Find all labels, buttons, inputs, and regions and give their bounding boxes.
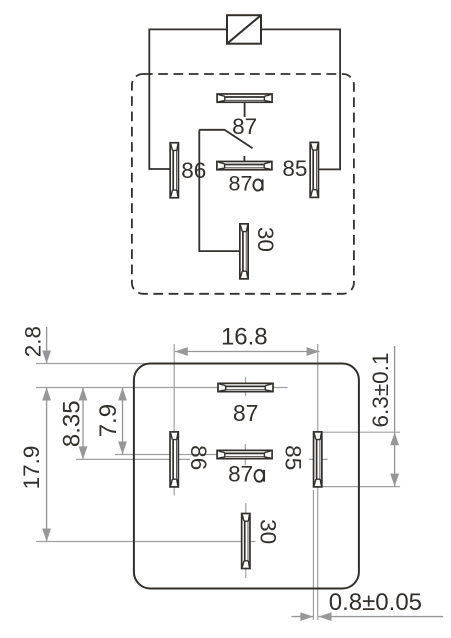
svg-text:16.8: 16.8 (221, 324, 268, 351)
svg-text:87: 87 (228, 462, 253, 487)
pin 30 blade (top schematic) (240, 224, 248, 279)
dimension 2.8 (21, 326, 51, 364)
dimension 16.8 (175, 324, 320, 356)
svg-text:30: 30 (253, 227, 278, 252)
svg-text:87: 87 (229, 172, 253, 196)
pin 87 blade (bottom drawing) (218, 383, 273, 391)
svg-text:87: 87 (233, 400, 259, 426)
dimension 0.8±0.05 (291, 589, 443, 621)
svg-text:7.9: 7.9 (95, 404, 122, 437)
center mark pin 30 (245, 503, 247, 578)
svg-text:17.9: 17.9 (19, 446, 44, 490)
label 87a (229, 172, 263, 196)
extension line 6.3 top (318, 431, 400, 433)
dashed relay outline (132, 74, 354, 294)
label 87a (bottom) (228, 462, 264, 487)
svg-text:86: 86 (186, 445, 211, 470)
pin 86 blade (bottom drawing) (170, 432, 178, 487)
extension line pin 86 vertical (173, 344, 175, 496)
wire coil left to pin 86 (149, 29, 227, 169)
relay body outline (134, 364, 359, 589)
pin 87a blade (bottom drawing) (217, 450, 272, 458)
pin 87a blade (top schematic) (217, 161, 272, 169)
svg-text:6.3±0.1: 6.3±0.1 (368, 353, 393, 428)
svg-text:30: 30 (256, 519, 281, 544)
svg-text:85: 85 (281, 445, 306, 470)
dimension 8.35 (59, 388, 88, 460)
pin 30 blade (bottom drawing) (242, 514, 250, 569)
extension line pin 87 center (36, 387, 288, 389)
center mark pin 87 (245, 377, 247, 396)
svg-text:86: 86 (181, 158, 206, 183)
extension line pin 30 center (36, 541, 255, 543)
extension line 6.3 bottom (318, 486, 400, 488)
dimension 6.3±0.1 (368, 346, 399, 487)
svg-text:8.35: 8.35 (59, 400, 86, 447)
extension line pin 85 vertical (317, 344, 319, 620)
extension line body top (36, 363, 150, 365)
dimension 7.9 (95, 388, 127, 455)
pin 87 blade (top schematic) (217, 94, 272, 102)
dimension 17.9 (19, 388, 51, 542)
extension line pin 86 center (76, 458, 190, 460)
wire coil right to pin 85 (261, 29, 340, 169)
wire switch to pin 30 (199, 130, 239, 251)
pin 85 blade (bottom drawing) (314, 432, 322, 487)
svg-text:87: 87 (232, 114, 257, 139)
wire stub pin 87 (244, 103, 246, 117)
switch contact arm (199, 130, 252, 148)
wire stub pin 87a (243, 156, 245, 162)
relay coil (rectangle with diagonal) (227, 15, 261, 44)
extension line pin 87a center (115, 454, 217, 456)
center mark pin 87a (244, 444, 246, 465)
svg-text:2.8: 2.8 (21, 326, 46, 357)
center mark pin 85 horizontal (309, 458, 328, 460)
svg-text:0.8±0.05: 0.8±0.05 (329, 589, 422, 616)
extension line pin 85 side vertical (312, 490, 314, 620)
pin 85 blade (top schematic) (310, 142, 318, 197)
pin 86 blade (top schematic) (170, 143, 178, 198)
svg-text:85: 85 (282, 156, 307, 181)
